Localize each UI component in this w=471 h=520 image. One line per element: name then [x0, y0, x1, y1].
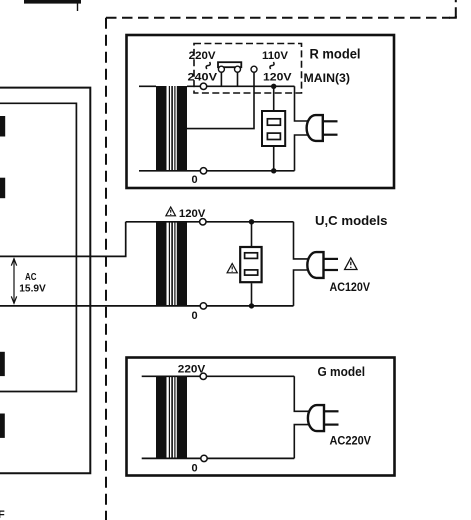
- wire: T1 bottom wire: [139, 170, 295, 172]
- terminal circle (110V tap): [251, 66, 257, 72]
- wire: T3 top wire: [142, 375, 295, 377]
- svg-text:0: 0: [192, 310, 198, 322]
- svg-text:R model: R model: [310, 47, 361, 62]
- svg-text:AC: AC: [25, 272, 37, 283]
- svg-text:AC120V: AC120V: [330, 280, 371, 294]
- wire stub top: [77, 0, 79, 11]
- wire: AC output lower from left box to U,C transformer primary: [0, 305, 156, 307]
- component stub 3 (cut off, left edge): [0, 352, 5, 376]
- svg-text:240V: 240V: [188, 71, 218, 83]
- plug P1 (R model): [307, 115, 338, 141]
- junction dot (top of outlet): [271, 84, 276, 89]
- transformer T2 (U,C models): [156, 222, 187, 307]
- warning triangle (outlet U,C): [227, 264, 237, 273]
- wire: T1 secondary top wire: [187, 85, 295, 87]
- svg-text:0: 0: [192, 174, 198, 186]
- jumper bar: [218, 62, 241, 67]
- dashed enclosure left edge: [105, 18, 107, 520]
- wire: T3 bottom wire: [142, 457, 295, 459]
- svg-text:0: 0: [192, 463, 198, 475]
- svg-text:120V: 120V: [263, 71, 292, 83]
- outlet slot lower: [267, 133, 280, 139]
- wire: T2 bottom wire right portion: [156, 305, 294, 307]
- wire: plug top branch (G): [294, 376, 308, 411]
- plug P3 (G model): [308, 405, 339, 431]
- wire: AC output upper from left box to U,C transformer primary: [0, 222, 126, 257]
- wire: plug bottom branch (U,C): [294, 270, 309, 306]
- terminal circle 120V: [200, 219, 206, 225]
- transformer T3 (G model): [156, 376, 187, 459]
- left inner box (cut off at left): [0, 103, 76, 391]
- outlet slot upper (U,C): [245, 253, 258, 259]
- svg-text:15.9V: 15.9V: [19, 284, 46, 295]
- terminal circle (jumper right): [235, 66, 241, 72]
- component stub 2 (cut off, left edge): [0, 178, 5, 199]
- terminal circle 220V: [200, 373, 206, 379]
- dimension arrow AC 15.9V: [11, 259, 16, 304]
- junction dot (bottom of outlet): [271, 168, 276, 173]
- terminal circle 240V on top wire: [200, 83, 206, 89]
- svg-text:AC220V: AC220V: [330, 433, 372, 447]
- terminal circle 0 (U,C): [200, 303, 206, 309]
- R model enclosure box: [127, 35, 395, 188]
- svg-text:G model: G model: [318, 364, 366, 379]
- junction dot (top of outlet U,C): [249, 219, 254, 224]
- svg-text:110V: 110V: [262, 50, 289, 62]
- svg-text:U,C models: U,C models: [315, 213, 388, 228]
- wire: outlet bottom lead: [273, 146, 275, 171]
- wire: jumper terminal right lead: [237, 70, 239, 86]
- svg-text:220V: 220V: [189, 50, 216, 62]
- G model enclosure box: [127, 358, 395, 476]
- wire: T2 secondary top wire: [126, 221, 294, 223]
- svg-text:MAIN(3): MAIN(3): [304, 71, 351, 85]
- wire: T1 primary top lead: [139, 85, 156, 87]
- dashed enclosure top edge: [106, 17, 450, 19]
- outlet receptacle (R model): [262, 111, 285, 146]
- component stub 1 (cut off, left edge): [0, 116, 5, 137]
- outlet slot upper: [267, 119, 280, 125]
- junction dot (bottom of outlet U,C): [249, 303, 254, 308]
- wire: jumper terminal left lead: [220, 70, 222, 86]
- component stub 4 (cut off, left edge): [0, 414, 5, 438]
- cut-off box bottom edge (top of page): [24, 0, 81, 4]
- warning triangle (AC120V): [345, 258, 357, 270]
- label ~ (220-240): [206, 62, 210, 69]
- outlet receptacle (U,C): [240, 247, 261, 282]
- label ~ (110-120): [270, 62, 274, 69]
- wire: plug bottom branch: [295, 135, 309, 171]
- outlet slot lower (U,C): [245, 270, 258, 275]
- wire: 110V tap lead: [187, 70, 254, 129]
- svg-text:F: F: [0, 509, 5, 520]
- wire: outlet bottom lead (U,C): [251, 283, 253, 306]
- terminal circle 0 on bottom wire: [200, 168, 206, 174]
- plug P2 (U,C models): [307, 252, 338, 278]
- wire: outlet top lead (U,C): [251, 222, 253, 247]
- voltage selector dashed box: [194, 44, 302, 94]
- terminal circle (jumper left): [218, 66, 224, 72]
- wire: outlet top lead: [273, 86, 275, 111]
- wire: plug top branch (U,C): [294, 222, 309, 259]
- wire: plug top branch: [295, 86, 309, 121]
- dashed enclosure top-right corner (vertical going up, cut off): [449, 16, 456, 18]
- terminal circle 0 (G): [201, 455, 207, 461]
- left outer box (cut off at left): [0, 88, 90, 474]
- wire: plug bottom branch (G): [294, 425, 308, 459]
- warning triangle (120V): [166, 207, 176, 216]
- transformer T1 (R model): [156, 86, 187, 171]
